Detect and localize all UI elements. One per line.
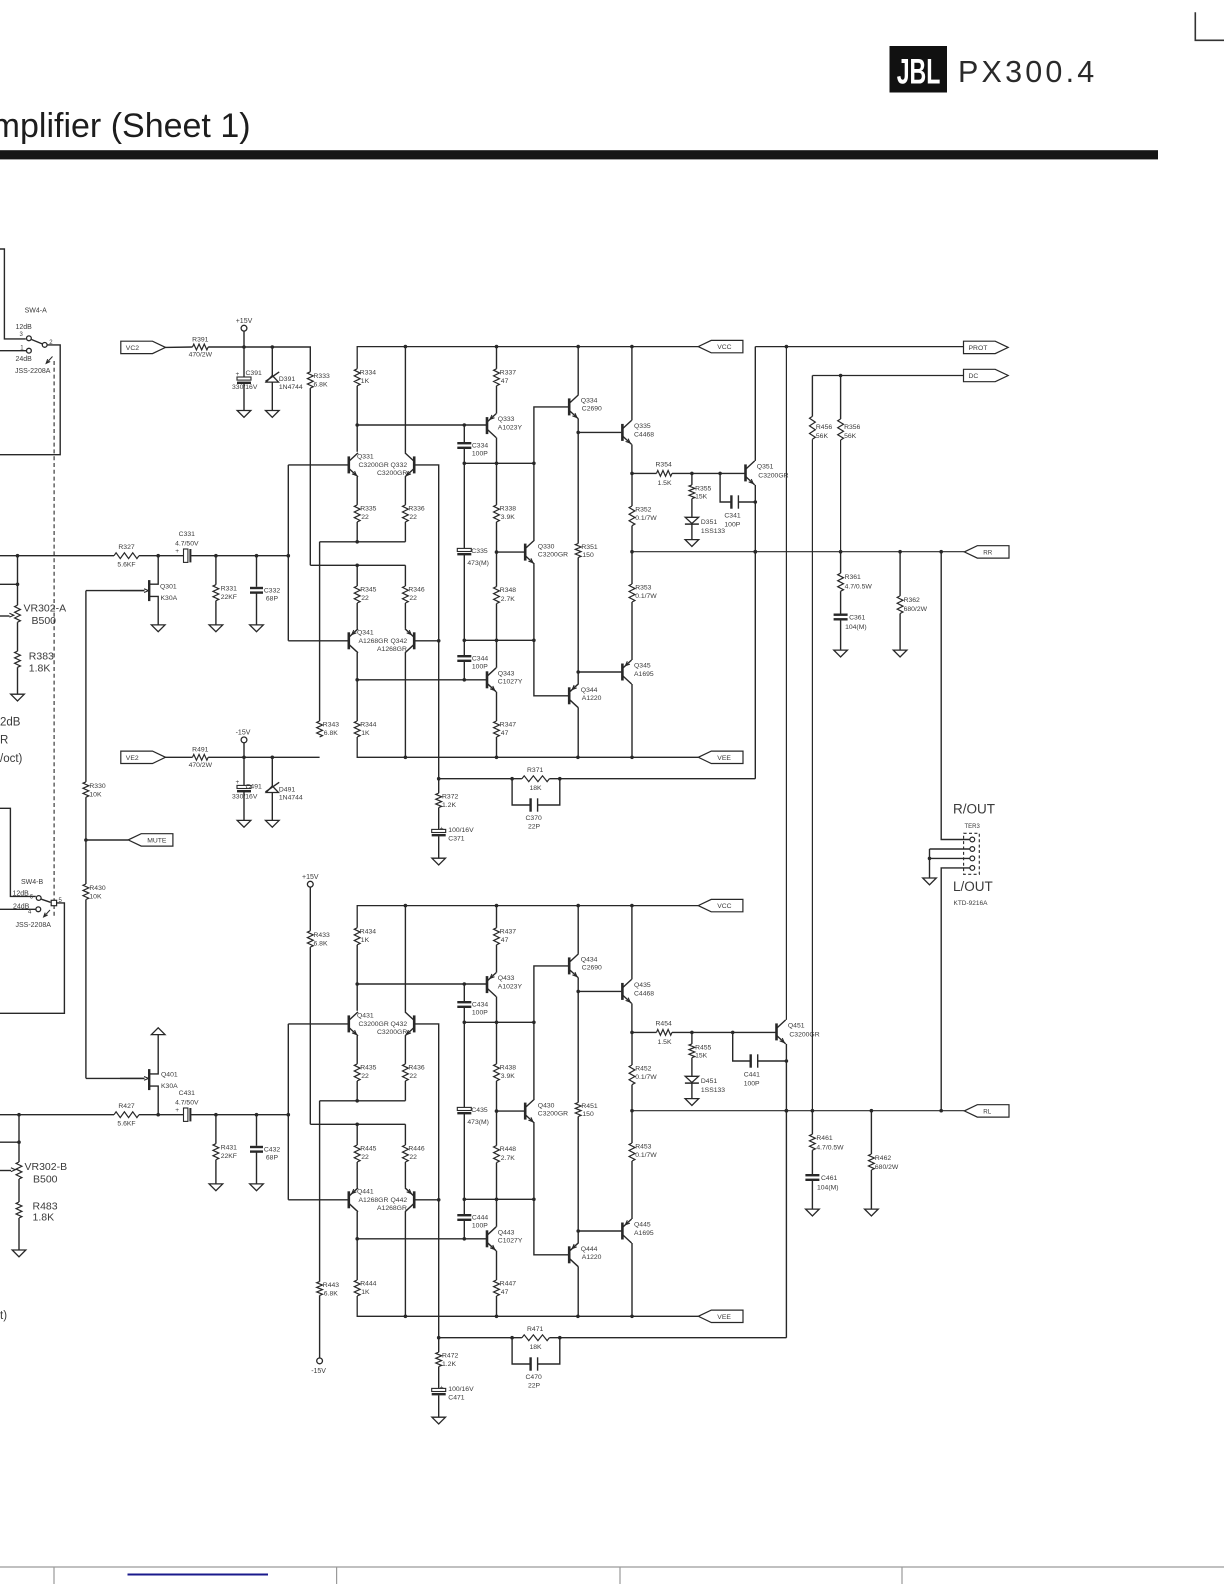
power flag VEE (channel B) [698, 1310, 743, 1322]
svg-text:56K: 56K [844, 433, 857, 440]
transistor Q345 A1695 [621, 664, 624, 681]
svg-text:R391: R391 [192, 336, 208, 343]
svg-text:B500: B500 [33, 1174, 58, 1186]
svg-text:C1027Y: C1027Y [498, 1238, 523, 1245]
svg-text:Q343: Q343 [498, 670, 515, 677]
ground below R483 [18, 1218, 20, 1250]
svg-text:+: + [236, 371, 240, 378]
resistor R337 47 [494, 369, 500, 386]
svg-text:473(M): 473(M) [467, 1119, 489, 1126]
svg-text:C435: C435 [471, 1107, 487, 1114]
capacitor C435 473(M) [463, 1022, 465, 1107]
svg-text:R343: R343 [323, 722, 339, 729]
svg-text:C432: C432 [264, 1146, 280, 1153]
capacitor C370 22P [512, 779, 531, 805]
svg-text:680/2W: 680/2W [904, 606, 928, 613]
svg-text:t): t) [0, 1310, 7, 1322]
ground below C332 [250, 1184, 264, 1191]
wire input line (channel A) [0, 555, 114, 557]
svg-text:R344: R344 [360, 722, 376, 729]
transistor Q351 C3200GR protection sense [744, 464, 747, 481]
svg-text:+: + [175, 1107, 179, 1114]
power flag VCC (channel A) [698, 340, 743, 352]
wire Q334 emitter node [577, 978, 579, 992]
footer cell divider 2 [336, 1567, 338, 1584]
svg-text:6.8K: 6.8K [324, 730, 338, 737]
wire Q343 base line [357, 1238, 487, 1240]
svg-text:5.6KF: 5.6KF [117, 561, 135, 568]
svg-text:R434: R434 [360, 928, 376, 935]
svg-text:Q434: Q434 [581, 956, 598, 963]
svg-text:D391: D391 [279, 376, 295, 383]
switch SW4-A JSS-2208A [0, 249, 26, 339]
svg-text:/oct): /oct) [0, 753, 23, 765]
svg-text:C434: C434 [472, 1001, 488, 1008]
svg-text:470/2W: 470/2W [189, 352, 213, 359]
JFET Q401 K30A mute switch [148, 1069, 150, 1090]
capacitor C431 4.7/50V electrolytic [184, 1108, 188, 1121]
svg-text:150: 150 [582, 552, 594, 559]
svg-text:L/OUT: L/OUT [953, 879, 993, 894]
wire Q330 base stub [497, 1110, 526, 1112]
svg-text:C431: C431 [179, 1090, 195, 1097]
svg-text:R345: R345 [360, 587, 376, 594]
transistor Q430 C3200GR [524, 1103, 527, 1120]
svg-text:A1268GR: A1268GR [359, 1197, 389, 1204]
svg-text:VCC: VCC [717, 344, 731, 351]
wire rail to R337 [496, 906, 498, 928]
resistor R355 15K [691, 473, 693, 485]
wire RR to connector pin 1 [941, 552, 970, 840]
resistor R354 1.5K [632, 472, 657, 474]
svg-text:100/16V: 100/16V [448, 827, 474, 834]
svg-text:R334: R334 [360, 369, 376, 376]
svg-text:1SS133: 1SS133 [701, 1087, 725, 1094]
svg-text:R452: R452 [635, 1066, 651, 1073]
svg-text:100P: 100P [472, 1223, 488, 1230]
resistor R456 56K [811, 376, 813, 417]
svg-text:100P: 100P [724, 521, 740, 528]
svg-text:D451: D451 [701, 1078, 717, 1085]
transistor Q335 C4468 [621, 424, 624, 441]
svg-text:R352: R352 [635, 507, 651, 514]
ground below D491 [266, 820, 280, 827]
svg-text:VCC: VCC [717, 903, 731, 910]
svg-text:R447: R447 [500, 1281, 516, 1288]
svg-text:C2690: C2690 [582, 406, 602, 413]
svg-text:1.5K: 1.5K [658, 480, 672, 487]
svg-text:6.8K: 6.8K [314, 381, 328, 388]
svg-text:C331: C331 [179, 531, 195, 538]
svg-text:C371: C371 [448, 835, 464, 842]
ground below R331 [209, 625, 223, 632]
svg-text:100P: 100P [472, 1010, 488, 1017]
resistor R336 22 [404, 477, 406, 505]
capacitor C471 100/16V electrolytic [438, 1367, 440, 1389]
svg-text:C332: C332 [264, 587, 280, 594]
svg-text:6: 6 [30, 894, 34, 900]
resistor R362 680/2W [899, 552, 901, 596]
potentiometer VR302-B B500 [16, 1162, 22, 1179]
svg-text:A1695: A1695 [634, 1230, 654, 1237]
ground below D351 [685, 540, 699, 547]
resistor R445 22 [356, 1124, 358, 1145]
power flag VCC (channel B) [698, 899, 743, 911]
resistor R348 2.7K [496, 552, 498, 587]
svg-text:330/16V: 330/16V [232, 384, 258, 391]
svg-text:Q332: Q332 [391, 462, 408, 469]
wire Q341 base [288, 1199, 349, 1201]
connector pin 1 [970, 837, 975, 842]
resistor R483 1.8K [18, 1179, 20, 1202]
svg-text:C3200GR: C3200GR [377, 470, 407, 477]
svg-text:1.2K: 1.2K [442, 1361, 456, 1368]
ground below C332 [250, 625, 264, 632]
capacitor C332 68P [256, 556, 258, 587]
svg-text:C391: C391 [246, 370, 262, 377]
svg-text:R444: R444 [360, 1281, 376, 1288]
ground below Q301 [151, 625, 165, 632]
resistor R330 10K [83, 782, 89, 797]
svg-text:C344: C344 [472, 655, 488, 662]
resistor R447 47 [496, 1251, 498, 1280]
wire Q344 collector to VEE [577, 1267, 579, 1317]
switch gang dashed link [53, 361, 55, 918]
svg-text:R427: R427 [118, 1103, 134, 1110]
wire PNP tail line [310, 564, 405, 566]
wire R351 to Q344 emitter [577, 558, 579, 685]
svg-text:56K: 56K [816, 433, 829, 440]
svg-text:D491: D491 [279, 786, 295, 793]
resistor R453 0.1/7W [631, 1111, 633, 1143]
resistor R437 47 [494, 928, 500, 945]
svg-text:-15V: -15V [311, 1368, 326, 1375]
svg-text:Q432: Q432 [391, 1021, 408, 1028]
svg-text:A1268GR: A1268GR [377, 646, 407, 653]
svg-text:R436: R436 [408, 1064, 424, 1071]
wire gate bus R330 column [85, 591, 87, 782]
svg-text:C4468: C4468 [634, 990, 654, 997]
svg-text:Q351: Q351 [757, 463, 774, 470]
svg-text:C3200GR: C3200GR [789, 1031, 819, 1038]
transistor Q343 C1027Y [486, 671, 489, 688]
feedback resistor R371 18K [439, 778, 522, 780]
svg-text:R347: R347 [500, 722, 516, 729]
resistor R451 150 [577, 991, 579, 1102]
svg-text:-15V: -15V [236, 730, 251, 737]
svg-text:47: 47 [501, 378, 509, 385]
svg-text:22: 22 [361, 1073, 369, 1080]
wire base riser vertical [287, 465, 289, 641]
wire Q343 base line [357, 679, 487, 681]
svg-text:C3200GR: C3200GR [538, 552, 568, 559]
wire C331 to base riser [190, 1114, 288, 1116]
svg-text:R351: R351 [581, 544, 597, 551]
switch arrow SW4-A [47, 357, 53, 363]
wire R327 to C331 [139, 1114, 184, 1116]
svg-text:Q444: Q444 [581, 1246, 598, 1253]
wire VCC rail [357, 347, 698, 369]
capacitor C341 100P [720, 473, 731, 502]
wire R343 to NPN tail line [319, 542, 321, 721]
resistor R454 1.5K [632, 1031, 657, 1033]
resistor R356 56K [840, 376, 842, 420]
svg-text:K30A: K30A [161, 1083, 178, 1090]
wire bias node line to Q351 base [672, 1031, 777, 1033]
svg-text:473(M): 473(M) [467, 560, 489, 567]
wire Q334 base column [534, 966, 569, 1099]
svg-text:15K: 15K [695, 494, 708, 501]
svg-text:R353: R353 [635, 585, 651, 592]
wire R391 to R333 top corner [208, 347, 310, 372]
wire pin 2 to ground bus [930, 848, 970, 850]
svg-text:22: 22 [409, 1154, 417, 1161]
capacitor C334 100P [463, 425, 465, 442]
switch arrow SW4-B [45, 910, 51, 916]
wire R433 to PNP tail line (channel B) [309, 947, 311, 1124]
svg-text:DC: DC [969, 373, 979, 380]
svg-text:1.5K: 1.5K [658, 1039, 672, 1046]
svg-text:Q430: Q430 [538, 1102, 555, 1109]
wire VCC rail [357, 906, 698, 928]
ground below C491 [237, 820, 251, 827]
resistor R434 1K [354, 928, 360, 945]
JFET Q301 K30A mute switch [148, 580, 150, 601]
resistor R455 15K [691, 1032, 693, 1044]
svg-text:22: 22 [409, 595, 417, 602]
transistor Q432 C3200GR [413, 1015, 416, 1032]
transistor Q442 A1268GR [404, 1162, 406, 1188]
wire base line to Q333/C334 [357, 424, 487, 426]
svg-text:0.1/7W: 0.1/7W [635, 1152, 657, 1159]
wire Q342 collector to VEE rail [404, 1212, 406, 1316]
transistor Q451 C3200GR protection sense [775, 1023, 778, 1040]
wire Q334 collector to rail [577, 906, 579, 954]
wire Q351 emitter to output line [785, 1044, 787, 1111]
wire feedback to output riser [549, 1337, 786, 1339]
svg-text:R472: R472 [442, 1353, 458, 1360]
svg-text:18K: 18K [530, 785, 543, 792]
wire C335 line to Q344 base [464, 1198, 534, 1200]
connector pin 3 [970, 856, 975, 861]
svg-text:R/OUT: R/OUT [953, 802, 995, 817]
switch SW4-B JSS-2208A [0, 808, 36, 896]
svg-text:C341: C341 [724, 512, 740, 519]
ground below C371 [432, 858, 446, 865]
capacitor C391 330/16V electrolytic [243, 347, 245, 377]
svg-text:VR302-B: VR302-B [25, 1161, 68, 1173]
svg-text:R362: R362 [904, 597, 920, 604]
svg-text:22: 22 [361, 514, 369, 521]
transistor Q344 A1220 [568, 687, 571, 704]
svg-text:22: 22 [361, 1154, 369, 1161]
svg-text:Q344: Q344 [581, 687, 598, 694]
svg-text:Q341: Q341 [357, 630, 374, 637]
svg-text:R354: R354 [656, 461, 672, 468]
wire Q401 gate line [86, 1077, 145, 1079]
wire base line to Q333/C334 [357, 983, 487, 985]
svg-text:R431: R431 [221, 1145, 237, 1152]
capacitor C491 330/16V electrolytic [243, 757, 245, 785]
wire R334 to Q331 collector [356, 386, 358, 452]
wire Q345 collector to VEE [631, 684, 633, 757]
svg-text:1K: 1K [361, 730, 370, 737]
transistor Q435 C4468 [621, 983, 624, 1000]
net flag MUTE [86, 839, 128, 841]
wire Q301 gate line [86, 590, 145, 592]
wire pin 3 to ground bus [930, 857, 970, 859]
wire VE2 to R491 [165, 756, 192, 758]
svg-text:22KF: 22KF [221, 1153, 237, 1160]
wire base riser vertical [287, 1024, 289, 1200]
svg-text:Q433: Q433 [498, 975, 515, 982]
svg-text:VE2: VE2 [126, 755, 139, 762]
svg-text:1K: 1K [361, 937, 370, 944]
wire NPN tail line [356, 1081, 358, 1101]
net flag DC [964, 369, 1009, 381]
svg-text:0.1/7W: 0.1/7W [635, 593, 657, 600]
svg-text:22: 22 [361, 595, 369, 602]
svg-text:R383: R383 [29, 651, 54, 663]
resistor R327 5.6KF [114, 553, 139, 559]
JBL logo [890, 46, 948, 93]
capacitor C434 100P [463, 984, 465, 1001]
svg-text:C370: C370 [526, 815, 542, 822]
transistor Q434 C2690 [568, 957, 571, 974]
svg-text:R454: R454 [656, 1020, 672, 1027]
svg-text:R361: R361 [845, 574, 861, 581]
capacitor C371 100/16V electrolytic [438, 808, 440, 830]
resistor R438 3.9K [496, 1022, 498, 1064]
svg-text:C335: C335 [471, 548, 487, 555]
svg-text:JSS-2208A: JSS-2208A [15, 368, 51, 375]
wire rail to Q332 collector [404, 906, 406, 1012]
wire rail to R337 [496, 347, 498, 369]
svg-text:D351: D351 [701, 519, 717, 526]
transistor Q433 A1023Y [496, 945, 498, 973]
diode D491 1N4744 zener [271, 757, 273, 786]
terminal -15V (channel B) [319, 1295, 321, 1358]
svg-text:Q442: Q442 [391, 1197, 408, 1204]
wire C331 to base riser [190, 555, 288, 557]
svg-text:47: 47 [501, 937, 509, 944]
svg-text:R435: R435 [360, 1064, 376, 1071]
resistor R444 1K [356, 1239, 358, 1280]
resistor R433 6.8K [309, 887, 311, 931]
terminal +15V (channel B) [307, 881, 313, 887]
wire lower stub to VR302-A [0, 583, 18, 585]
svg-text:R371: R371 [527, 767, 543, 774]
wire R351 to Q344 emitter [577, 1117, 579, 1244]
connector pin 2 [970, 847, 975, 852]
svg-text:C3200GR: C3200GR [377, 1029, 407, 1036]
svg-text:R355: R355 [695, 485, 711, 492]
svg-text:A1023Y: A1023Y [498, 983, 523, 990]
svg-text:+: + [440, 1384, 444, 1391]
wire Q451 collector riser to PROT [785, 347, 787, 1020]
svg-text:A1268GR: A1268GR [359, 638, 389, 645]
svg-text:+: + [175, 548, 179, 555]
wire Q334 emitter node [577, 419, 579, 433]
resistor R383 1.8K [17, 622, 19, 651]
power flag VEE (channel A) [698, 751, 743, 763]
svg-text:B500: B500 [32, 615, 57, 627]
wire NPN tail line [356, 522, 358, 542]
svg-text:Q431: Q431 [357, 1013, 374, 1020]
svg-text:1.2K: 1.2K [442, 802, 456, 809]
svg-text:R443: R443 [323, 1282, 339, 1289]
svg-text:150: 150 [582, 1111, 594, 1118]
svg-text:MUTE: MUTE [147, 838, 167, 845]
svg-text:+15V: +15V [302, 874, 319, 881]
svg-text:1SS133: 1SS133 [701, 528, 725, 535]
svg-text:4.7/0.5W: 4.7/0.5W [816, 1144, 844, 1151]
svg-text:Amplifier (Sheet 1): Amplifier (Sheet 1) [0, 107, 251, 145]
svg-text:+: + [236, 779, 240, 786]
wire R353 to Q345 emitter [631, 1161, 633, 1219]
transistor Q443 C1027Y [486, 1230, 489, 1247]
svg-text:Q342: Q342 [391, 638, 408, 645]
wire output sense riser [754, 552, 756, 779]
svg-text:C471: C471 [448, 1394, 464, 1401]
svg-text:68P: 68P [266, 1155, 279, 1162]
resistor R427 5.6KF [114, 1112, 139, 1118]
svg-text:VC2: VC2 [126, 345, 139, 352]
svg-text:0.1/7W: 0.1/7W [635, 1074, 657, 1081]
svg-text:A1023Y: A1023Y [498, 424, 523, 431]
wire PROT line [755, 346, 963, 348]
capacitor C361 104(M) [840, 591, 842, 613]
transistor Q431 C3200GR [347, 1015, 350, 1032]
wire Q333 collector line [464, 1021, 534, 1023]
wire Q343 collector up to line [496, 640, 498, 668]
wire VEE rail [357, 1296, 698, 1316]
wire R330 to mute node [85, 797, 87, 840]
wire output sense riser [785, 1111, 787, 1338]
wire Q341 base [288, 640, 349, 642]
resistor R452 0.1/7W [631, 1032, 633, 1065]
svg-text:104(M): 104(M) [817, 1185, 839, 1192]
svg-text:KTD-9216A: KTD-9216A [954, 900, 989, 907]
svg-text:Q335: Q335 [634, 423, 651, 430]
resistor R436 22 [404, 1036, 406, 1064]
svg-text:24dB: 24dB [16, 356, 33, 363]
terminal -15V (channel A) [241, 737, 247, 743]
svg-text:3.9K: 3.9K [501, 514, 515, 521]
svg-text:1.8K: 1.8K [29, 663, 51, 675]
resistor R345 22 [356, 565, 358, 586]
svg-text:R335: R335 [360, 505, 376, 512]
diode D451 1SS133 [691, 1058, 693, 1077]
svg-text:2.7K: 2.7K [501, 1155, 515, 1162]
svg-text:R433: R433 [314, 932, 330, 939]
svg-text:47: 47 [501, 1289, 509, 1296]
svg-text:R445: R445 [360, 1146, 376, 1153]
svg-text:A1695: A1695 [634, 671, 654, 678]
svg-text:Q334: Q334 [581, 397, 598, 404]
footer cell divider 3 [619, 1567, 621, 1584]
resistor R346 22 [404, 565, 406, 586]
svg-text:R453: R453 [635, 1144, 651, 1151]
svg-text:Q443: Q443 [498, 1229, 515, 1236]
svg-text:R491: R491 [192, 747, 208, 754]
transistor Q331 C3200GR [347, 456, 350, 473]
svg-text:R455: R455 [695, 1044, 711, 1051]
wire Q342 base stub [414, 1199, 439, 1201]
capacitor C344 100P [463, 640, 465, 655]
connector TER3 KTD-9216A [964, 833, 980, 874]
svg-text:K30A: K30A [161, 595, 178, 602]
